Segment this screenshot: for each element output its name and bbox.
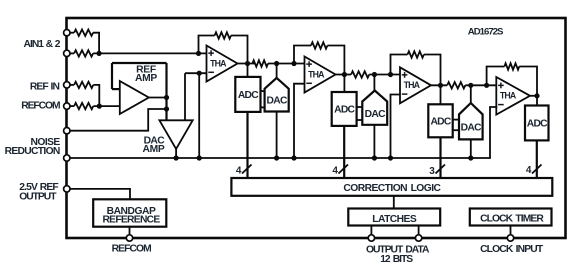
svg-text:CLOCK TIMER: CLOCK TIMER xyxy=(480,213,544,224)
junction DAC1 tap xyxy=(274,61,279,66)
wire interstage 2-3 xyxy=(369,74,400,76)
wire THA2 output xyxy=(336,74,352,76)
wire THA1 minus to bus xyxy=(198,73,200,158)
svg-text:CLOCK INPUT: CLOCK INPUT xyxy=(480,244,544,255)
chip outline AD1672S xyxy=(67,18,566,238)
svg-text:REFERENCE: REFERENCE xyxy=(102,215,160,226)
pin label OUTPUT DATA 12 BITS xyxy=(366,245,430,266)
bus width 4 stage1 xyxy=(236,165,252,177)
wire latches to output pin 2 xyxy=(418,226,420,239)
svg-text:ADC: ADC xyxy=(430,117,451,128)
svg-text:4: 4 xyxy=(236,166,242,177)
wire THA2 feedback left leg xyxy=(294,46,311,64)
adc ADC4 xyxy=(525,106,549,141)
wire bridge ADC3-DAC3 xyxy=(453,120,459,131)
wire correction logic to latches xyxy=(393,196,395,209)
svg-text:THA: THA xyxy=(308,69,325,79)
junction THA3 input node xyxy=(388,72,393,77)
wire ADC1 to correction logic xyxy=(246,112,248,178)
resistor REFCOM xyxy=(74,103,93,109)
wire ADC3 to correction logic xyxy=(439,137,441,178)
svg-text:AMP: AMP xyxy=(135,73,157,84)
svg-text:AMP: AMP xyxy=(143,144,165,155)
wire AIN2 stub xyxy=(70,52,74,54)
wire THA2 minus input xyxy=(294,84,305,158)
block CLOCK TIMER xyxy=(470,209,552,226)
wire ADC1 input xyxy=(247,64,249,77)
junction THA2 output node xyxy=(342,72,347,77)
svg-text:DAC: DAC xyxy=(365,109,387,120)
wire REF AMP output xyxy=(149,97,167,99)
svg-text:3: 3 xyxy=(429,166,435,177)
wire THA4 feedback left leg xyxy=(487,67,505,86)
pin REF IN xyxy=(64,82,70,88)
box REF AMP xyxy=(112,63,167,120)
pin CLOCK INPUT xyxy=(507,235,513,241)
pin bus left end xyxy=(64,155,70,161)
pin label 2.5V REF OUTPUT xyxy=(19,182,58,202)
bus width 4 stage4 xyxy=(526,165,542,177)
svg-text:AD1672S: AD1672S xyxy=(468,26,504,37)
block LATCHES xyxy=(348,209,440,226)
junction DAC2 tap xyxy=(372,72,377,77)
junction THA2 input node xyxy=(291,61,296,66)
wire REF IN stub xyxy=(70,84,74,86)
wire THA1 minus input xyxy=(185,72,207,74)
wire DAC2 top connection xyxy=(373,75,375,91)
pin AIN1 xyxy=(64,30,70,36)
svg-text:THA: THA xyxy=(210,58,227,68)
svg-text:REFCOM: REFCOM xyxy=(112,244,152,255)
wire bridge ADC1-DAC1 xyxy=(261,91,265,107)
wire noise reduction pin path xyxy=(70,109,167,131)
op-amp U3 THA3 xyxy=(400,67,431,103)
wire THA1 feedback left leg xyxy=(199,36,215,54)
svg-text:THA: THA xyxy=(500,91,517,101)
wire ADC2 to correction logic xyxy=(343,126,345,178)
wire 2.5V REF OUTPUT to bandgap xyxy=(70,189,130,199)
op-amp U4 THA4 xyxy=(496,77,530,115)
svg-text:OUTPUT: OUTPUT xyxy=(19,191,57,202)
pin 2.5V REF OUTPUT xyxy=(64,186,70,192)
svg-text:4: 4 xyxy=(332,166,338,177)
wire THA1 feedback right leg xyxy=(231,36,248,64)
svg-text:DAC: DAC xyxy=(461,123,483,134)
junction bus THA3 minus xyxy=(388,155,393,160)
pin OUTPUT DATA bit A xyxy=(368,235,374,241)
resistor THA2 feedback xyxy=(311,42,327,48)
wire latches to output pin 1 xyxy=(370,226,372,239)
wire ADC2 input xyxy=(343,75,345,93)
wire DAC3 to bus xyxy=(470,139,472,158)
op-amp REF AMP triangle xyxy=(120,81,149,114)
wire REFCOM node to REF AMP input xyxy=(93,105,120,107)
svg-text:REF IN: REF IN xyxy=(30,81,60,92)
wire DAC AMP output to reference bus xyxy=(175,149,177,158)
svg-text:ADC: ADC xyxy=(334,105,355,116)
svg-text:12 BITS: 12 BITS xyxy=(380,254,413,265)
pin REFCOM bottom xyxy=(126,235,132,241)
wire ADC3 input xyxy=(440,85,442,104)
wire bridge ADC2-DAC2 xyxy=(357,107,363,120)
resistor interstage R34 xyxy=(447,82,465,88)
junction bus DAC3 xyxy=(468,155,473,160)
svg-text:CORRECTION LOGIC: CORRECTION LOGIC xyxy=(343,183,441,194)
wire DAC1 to bus xyxy=(276,112,278,159)
wire reference bus xyxy=(70,107,497,158)
svg-text:DAC: DAC xyxy=(266,96,288,107)
resistor interstage R23 xyxy=(351,71,369,77)
svg-text:REFCOM: REFCOM xyxy=(21,101,60,112)
adc ADC3 xyxy=(428,104,452,137)
junction bus DAC2 xyxy=(372,155,377,160)
block CORRECTION LOGIC xyxy=(231,178,552,196)
wire ADC4 to correction logic xyxy=(536,140,538,178)
junction THA1 input node xyxy=(196,51,201,56)
wire THA3 feedback right leg xyxy=(424,55,441,86)
junction REF AMP output node xyxy=(164,95,169,100)
wire ADC4 input xyxy=(536,96,538,106)
svg-text:THA: THA xyxy=(404,80,421,90)
resistor AIN1 xyxy=(74,30,93,36)
pin AIN2 xyxy=(64,50,70,56)
wire THA3 output xyxy=(431,84,447,86)
bus width 4 stage2 xyxy=(332,165,348,177)
dac DAC2 xyxy=(362,91,387,125)
resistor AIN2 xyxy=(74,50,93,56)
pin NOISE REDUCTION xyxy=(64,128,70,134)
junction DAC3 tap xyxy=(468,83,473,88)
adc ADC2 xyxy=(332,92,357,126)
bus width 3 stage3 xyxy=(429,165,445,178)
wire THA2 feedback right leg xyxy=(327,46,344,75)
wire interstage 1-2 xyxy=(268,63,305,65)
junction noise-reduction tap node xyxy=(164,106,169,111)
junction bus THA2 minus xyxy=(291,155,296,160)
wire clock timer to clock input pin xyxy=(510,226,512,239)
pin label NOISE REDUCTION xyxy=(5,137,61,157)
pin OUTPUT DATA bit B xyxy=(415,235,421,241)
resistor interstage R12 xyxy=(252,60,268,66)
junction REFCOM node xyxy=(97,104,102,109)
junction bus DAC1 xyxy=(274,155,279,160)
svg-text:REDUCTION: REDUCTION xyxy=(5,146,60,157)
wire bandgap to REFCOM pin xyxy=(129,227,131,238)
junction THA4 output node xyxy=(534,93,539,98)
junction AIN node xyxy=(97,51,102,56)
wire DAC2 to bus xyxy=(373,125,375,158)
wire DAC1 top connection xyxy=(276,64,278,78)
wire THA1 output xyxy=(238,63,256,65)
label DAC AMP xyxy=(143,135,166,155)
wire DAC AMP input from THA1 minus node xyxy=(184,73,186,120)
junction bus THA1 minus xyxy=(197,155,202,160)
wire interstage 3-4 xyxy=(465,84,496,86)
junction THA1 output node xyxy=(245,61,250,66)
block BANDGAP REFERENCE xyxy=(93,199,166,226)
wire AIN1 resistor to junction xyxy=(93,33,99,54)
junction THA1 minus node xyxy=(197,71,202,76)
junction THA4 input node xyxy=(484,83,489,88)
dac DAC1 xyxy=(265,78,289,112)
svg-text:ADC: ADC xyxy=(238,90,259,101)
op-amp U2 THA2 xyxy=(305,57,336,93)
dac DAC3 xyxy=(459,103,483,139)
resistor REF IN xyxy=(74,82,93,88)
wire THA4 output xyxy=(530,95,537,97)
wire THA3 minus input xyxy=(391,95,401,159)
junction bus DAC AMP xyxy=(174,155,179,160)
adc ADC1 xyxy=(235,77,260,112)
wire THA4 feedback right leg xyxy=(519,67,537,96)
wire AIN junction to THA1 + input xyxy=(93,52,206,54)
wire DAC3 top connection xyxy=(470,85,472,103)
wire AIN1 upper branch xyxy=(70,32,74,34)
resistor THA4 feedback xyxy=(504,63,519,69)
resistor THA1 feedback xyxy=(215,32,231,38)
svg-text:AIN1 & 2: AIN1 & 2 xyxy=(24,39,61,50)
resistor THA3 feedback xyxy=(408,51,424,57)
wire THA3 feedback left leg xyxy=(391,55,408,75)
svg-text:4: 4 xyxy=(526,165,532,176)
op-amp DAC AMP triangle xyxy=(159,120,192,149)
pin REFCOM xyxy=(64,103,70,109)
op-amp U1 THA1 xyxy=(207,46,238,82)
wire REFCOM stub xyxy=(70,105,74,107)
svg-text:LATCHES: LATCHES xyxy=(372,214,417,225)
wire REF IN to REFCOM node xyxy=(93,85,99,106)
junction THA3 output node xyxy=(438,83,443,88)
svg-text:ADC: ADC xyxy=(527,118,548,129)
